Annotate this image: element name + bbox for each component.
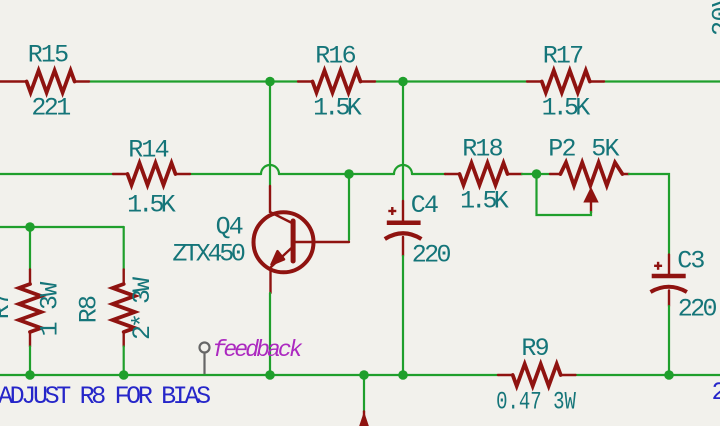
wire Q4 collector column — [269, 86, 271, 186]
resistor R17 — [527, 42, 604, 123]
svg-text:R14: R14 — [128, 136, 168, 165]
node feedback pin circle — [200, 343, 210, 375]
svg-text:ZTX450: ZTX450 — [172, 240, 245, 269]
wire middle rail y=174 with hops — [0, 165, 445, 174]
svg-text:1 3W: 1 3W — [36, 282, 65, 337]
svg-text:2: 2 — [712, 378, 720, 407]
junction node P2 left / wiper tie — [532, 169, 542, 179]
junction node at R16 right / C4 column — [398, 77, 408, 87]
svg-text:C4: C4 — [411, 191, 438, 220]
wire top rail y=81.5 — [89, 80, 720, 82]
wire R7 bottom lead — [29, 347, 31, 376]
svg-text:0.47 3W: 0.47 3W — [496, 388, 576, 416]
diode clipped at bottom edge — [359, 412, 369, 426]
wire Q4 emitter down to bottom rail — [269, 293, 271, 375]
wire bottom rail y=375 — [0, 374, 720, 376]
resistor R8 — [75, 270, 158, 347]
svg-text:C3: C3 — [677, 247, 704, 276]
svg-text:220: 220 — [412, 241, 451, 270]
svg-text:220: 220 — [678, 295, 717, 324]
svg-text:ADJUST R8 FOR BIAS: ADJUST R8 FOR BIAS — [0, 382, 210, 411]
junction node R8 bottom — [119, 370, 129, 380]
svg-text:R18: R18 — [462, 135, 502, 164]
svg-text:R16: R16 — [315, 42, 355, 71]
junction node stub down — [359, 370, 369, 380]
svg-text:1.5K: 1.5K — [313, 94, 362, 123]
wire R7 top lead — [29, 231, 31, 270]
svg-text:221: 221 — [31, 94, 70, 123]
junction node C4 bottom — [398, 370, 408, 380]
svg-text:R15: R15 — [28, 41, 68, 70]
svg-text:1.5K: 1.5K — [542, 94, 591, 123]
wire R18 to P2 — [522, 173, 550, 175]
svg-text:Q4: Q4 — [216, 213, 243, 242]
svg-text:1.5K: 1.5K — [127, 191, 176, 220]
svg-text:R9: R9 — [521, 334, 548, 363]
svg-text:R17: R17 — [543, 42, 583, 71]
resistor R16 — [298, 42, 375, 123]
svg-text:feedback: feedback — [213, 337, 303, 363]
junction node Q4 emitter bottom — [265, 370, 275, 380]
junction node at R16 left / Q4 collector column — [265, 77, 275, 87]
resistor R7 — [0, 270, 65, 347]
wire R8 top lead — [123, 227, 125, 270]
svg-text:20V: 20V — [708, 0, 720, 36]
wire R8 bottom lead — [123, 347, 125, 376]
resistor R9 — [496, 334, 576, 416]
capacitor C3 — [651, 247, 717, 376]
potentiometer P2 — [548, 135, 629, 213]
junction node R7 bottom — [25, 370, 35, 380]
svg-text:2* 3W: 2* 3W — [128, 277, 157, 340]
junction node base of Q4 on middle rail — [344, 169, 354, 179]
wire stub down to clipped diode — [363, 379, 365, 412]
junction node C3 bottom — [664, 370, 674, 380]
svg-text:R7: R7 — [0, 292, 16, 319]
resistor R15 — [0, 41, 89, 123]
wire R7 R8 top rail y=227 — [0, 226, 124, 228]
junction node R7 top — [25, 222, 35, 232]
svg-text:5K: 5K — [591, 135, 619, 164]
wire wiper feedback loop — [537, 178, 592, 215]
svg-text:P2: P2 — [548, 135, 575, 164]
resistor R18 — [445, 135, 522, 216]
svg-text:R8: R8 — [75, 296, 104, 323]
svg-text:1.5K: 1.5K — [460, 187, 509, 216]
capacitor C4 — [385, 86, 451, 375]
transistor Q4 — [172, 186, 349, 293]
wire from middle rail to Q4 base — [348, 178, 350, 240]
resistor R14 — [113, 136, 190, 220]
wire P2 right to C3 column — [629, 174, 669, 255]
